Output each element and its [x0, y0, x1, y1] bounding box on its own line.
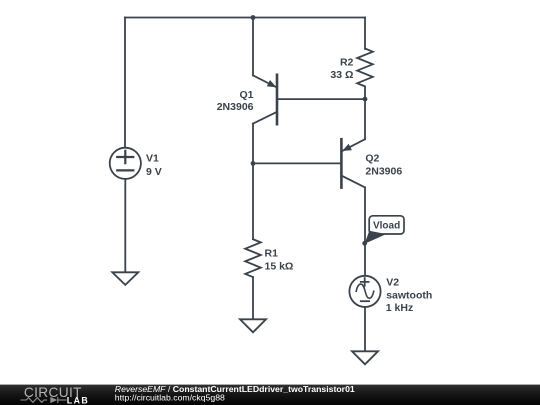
wire R2 top lead [364, 18, 366, 49]
wire Q2 collector drop [364, 187, 366, 275]
wire V1 top lead [124, 18, 126, 148]
svg-text:9 V: 9 V [146, 166, 162, 178]
wire R1 top lead [252, 163, 254, 239]
wire V1 bottom lead [124, 179, 126, 272]
wire Q1 collector drop [252, 124, 254, 164]
voltage source V2 (sawtooth) [349, 276, 380, 307]
wire Q2 emitter lead [364, 99, 366, 139]
footer bar [0, 385, 540, 405]
logo resistor-diode glyph [21, 397, 67, 403]
node junction top (Q1 emitter tap) [251, 15, 256, 20]
node flag Vload [362, 216, 404, 246]
wire Q2 base [253, 162, 341, 164]
wire top rail [125, 17, 365, 19]
svg-text:sawtooth: sawtooth [386, 289, 432, 301]
svg-text:33 Ω: 33 Ω [330, 69, 353, 81]
label V2 sawtooth 1 kHz [386, 277, 432, 314]
logo CIRCUIT text [24, 385, 82, 400]
label Vload [373, 221, 400, 232]
footer title line [115, 384, 355, 394]
ground (under R1) [240, 319, 266, 332]
footer url line [115, 392, 225, 402]
wire V2 bottom lead [364, 307, 366, 351]
svg-text:Q1: Q1 [239, 89, 253, 101]
label R2 33 Ohm [330, 56, 353, 80]
node junction (R2 / Q1 base / Q2 emitter) [363, 97, 368, 102]
logo LAB text [67, 395, 89, 405]
transistor Q2 (PNP 2N3906) [341, 139, 365, 187]
svg-text:R1: R1 [265, 248, 279, 260]
label R1 15 kOhm [265, 248, 294, 273]
wire R1 bottom lead [252, 277, 254, 319]
svg-text:R2: R2 [340, 56, 354, 68]
wire Q1 base to R2 node [277, 98, 365, 100]
svg-text:Q2: Q2 [365, 152, 379, 164]
svg-text:LAB: LAB [67, 395, 89, 405]
svg-text:V1: V1 [146, 153, 159, 165]
ground (under V1) [112, 272, 138, 285]
svg-text:Vload: Vload [373, 221, 400, 232]
label Q2 2N3906 [365, 152, 402, 177]
svg-text:V2: V2 [386, 277, 399, 289]
wire Q1 emitter drop [252, 18, 254, 76]
svg-text:2N3906: 2N3906 [365, 166, 402, 178]
node junction (Q1 collector / Q2 base / R1) [251, 161, 256, 166]
svg-text:2N3906: 2N3906 [217, 101, 254, 113]
transistor Q1 (PNP 2N3906) [253, 75, 277, 124]
svg-text:1 kHz: 1 kHz [386, 302, 413, 314]
ground (under V2) [352, 351, 378, 364]
label Q1 2N3906 [217, 89, 254, 113]
label V1 9 V [146, 153, 162, 179]
svg-text:15 kΩ: 15 kΩ [265, 261, 294, 273]
svg-text:http://circuitlab.com/ckq5g88: http://circuitlab.com/ckq5g88 [115, 392, 225, 402]
voltage source V1 [110, 148, 141, 179]
resistor R1 [245, 239, 261, 277]
wire R2 bottom lead [364, 87, 366, 99]
resistor R2 [357, 49, 373, 87]
